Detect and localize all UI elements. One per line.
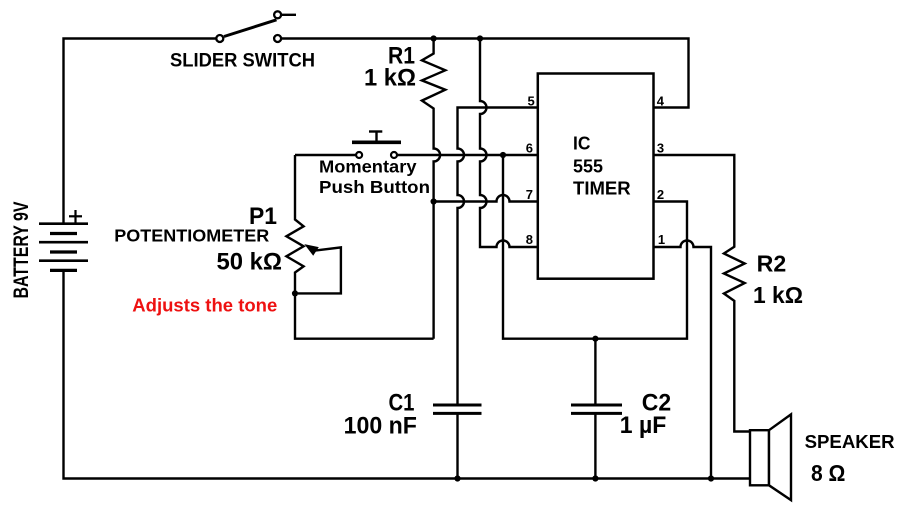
svg-text:1 kΩ: 1 kΩ (753, 282, 803, 308)
svg-text:SLIDER SWITCH: SLIDER SWITCH (170, 51, 315, 72)
svg-text:5: 5 (527, 94, 534, 109)
svg-text:1: 1 (658, 232, 665, 247)
svg-text:IC: IC (573, 133, 590, 154)
svg-text:Push Button: Push Button (319, 177, 430, 197)
svg-text:R2: R2 (757, 250, 787, 276)
svg-text:4: 4 (657, 94, 665, 109)
svg-text:3: 3 (657, 141, 664, 156)
svg-text:100 nF: 100 nF (344, 413, 417, 440)
svg-text:Momentary: Momentary (319, 157, 417, 177)
svg-text:1 kΩ: 1 kΩ (364, 64, 416, 91)
svg-text:555: 555 (573, 155, 603, 176)
svg-text:POTENTIOMETER: POTENTIOMETER (114, 225, 269, 245)
svg-text:SPEAKER: SPEAKER (805, 432, 895, 452)
svg-text:50 kΩ: 50 kΩ (217, 248, 283, 275)
svg-text:BATTERY 9V: BATTERY 9V (10, 202, 33, 299)
svg-text:7: 7 (526, 187, 533, 202)
svg-text:TIMER: TIMER (573, 178, 631, 199)
svg-text:1 µF: 1 µF (620, 412, 667, 439)
svg-text:8 Ω: 8 Ω (811, 460, 845, 486)
svg-text:2: 2 (657, 187, 664, 202)
svg-text:6: 6 (526, 141, 533, 156)
svg-text:8: 8 (526, 232, 533, 247)
svg-text:Adjusts the tone: Adjusts the tone (132, 296, 277, 316)
